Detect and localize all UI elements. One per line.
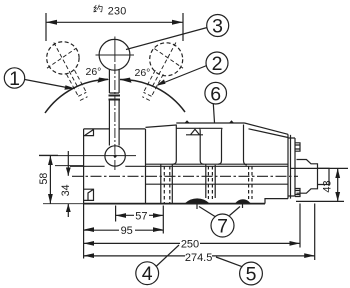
plunger cluster c dashed — [249, 166, 252, 199]
dashed ball left position — [47, 42, 79, 74]
cap lower line — [176, 127, 222, 129]
balloon 4 leader — [156, 245, 179, 267]
dimension 34 arrows — [66, 168, 71, 213]
dimension 250 arrows — [84, 241, 300, 246]
dimension 230 line — [46, 21, 183, 23]
balloon 5 leader — [216, 257, 243, 267]
balloon 7 leader right — [230, 207, 241, 216]
cone inner line — [249, 129, 289, 138]
svg-text:34: 34 — [60, 184, 72, 196]
body mid line — [146, 183, 289, 185]
dimension 95 line — [84, 229, 164, 231]
body bottom — [84, 203, 265, 205]
dimension 230 arrow right — [172, 20, 183, 25]
svg-text:2: 2 — [212, 53, 223, 75]
swing arc left — [45, 79, 108, 113]
balloon 1 leader — [25, 80, 72, 89]
dimension 43 line — [337, 168, 339, 201]
swing arc arrow right — [120, 78, 132, 83]
balloon 3 — [207, 15, 229, 37]
bottom-left clip detail — [84, 189, 94, 200]
svg-text:95: 95 — [121, 225, 133, 237]
right foot dome — [235, 199, 251, 203]
dimension 274.5 ext right — [314, 204, 316, 261]
body first tower outline — [84, 129, 146, 204]
filler plug symbol — [186, 129, 203, 135]
balloon 6 — [205, 82, 227, 104]
balloon 6 leader — [213, 104, 214, 123]
plunger cluster b — [206, 164, 215, 198]
pivot horizontal centerline — [39, 155, 136, 157]
dimension 43 ext top — [291, 167, 348, 169]
balloon 2 leader — [158, 66, 207, 86]
ball knob centerline horizontal — [96, 54, 135, 56]
svg-text:4: 4 — [142, 263, 153, 285]
dimension 43 ext bottom — [296, 200, 344, 202]
dashed lever stem left — [67, 70, 88, 100]
lever stem centerline — [114, 64, 116, 170]
tower A right side — [199, 128, 204, 164]
dimension 250 line — [84, 242, 300, 244]
main shaft centerline — [72, 175, 298, 177]
end plate — [288, 134, 295, 198]
dimension 34 ext left — [55, 165, 84, 167]
dashed lever stem right — [142, 70, 163, 100]
dimension 95 ext left — [83, 204, 85, 259]
output shaft tip — [318, 168, 330, 184]
tower A left side — [173, 125, 177, 165]
tower B left side — [218, 128, 223, 164]
right foot tick — [242, 204, 244, 208]
lever stem lower — [109, 100, 119, 146]
svg-text:5: 5 — [246, 264, 257, 286]
svg-text:3: 3 — [212, 16, 223, 38]
balloon 5 — [240, 262, 263, 285]
dimension 57 arrows — [116, 213, 164, 218]
balloon 2 — [206, 52, 228, 74]
dashed ball right cross perpendicular — [154, 49, 183, 69]
svg-text:274.5: 274.5 — [185, 252, 213, 264]
dimension 57 ext right — [162, 206, 164, 234]
cap top — [176, 122, 244, 124]
dimension 250 ext right — [299, 204, 301, 248]
ball knob — [99, 39, 130, 70]
left foot dome — [185, 198, 210, 203]
svg-text:230: 230 — [108, 5, 127, 17]
dimension 230 label — [93, 5, 102, 12]
dimension 230 arrow left — [46, 20, 57, 25]
cap diagonal right — [245, 123, 289, 134]
tower B right side — [244, 125, 248, 165]
output shaft collar — [297, 160, 318, 194]
dimension 57 ext left — [115, 206, 117, 222]
balloon 4 — [136, 262, 159, 285]
swing arc arrow left — [98, 78, 110, 83]
balloon 1 — [4, 68, 24, 88]
balloon 7 — [211, 214, 234, 237]
lever stem upper — [109, 70, 119, 94]
pivot circle — [105, 146, 125, 166]
end plate top bolt — [295, 143, 300, 151]
svg-text:1: 1 — [9, 68, 20, 90]
shoulder line second — [146, 163, 289, 165]
dashed ball left cross perpendicular — [47, 49, 76, 69]
dimension 230 extension line left — [45, 13, 47, 41]
ball knob centerline vertical — [114, 37, 116, 63]
balloon 7 leader left — [199, 207, 215, 217]
lever stem joint — [109, 96, 121, 100]
dashed ball right cross axis — [151, 43, 176, 89]
pivot center dot — [114, 155, 117, 158]
swing arc right — [120, 79, 185, 112]
dimension 57 line — [116, 214, 164, 216]
svg-text:26°: 26° — [86, 66, 102, 78]
svg-text:26°: 26° — [135, 67, 151, 79]
balloon 1 leader arrow — [64, 85, 75, 90]
balloon 3 leader — [126, 28, 207, 50]
dimension 230 extension line right — [182, 13, 184, 41]
svg-text:58: 58 — [38, 173, 50, 185]
dimension 43 arrows — [335, 168, 340, 201]
svg-text:250: 250 — [181, 238, 199, 250]
dimension 95 arrows — [84, 227, 164, 232]
left foot tick — [196, 204, 198, 209]
dashed ball left cross axis — [54, 43, 79, 89]
svg-text:43: 43 — [322, 180, 334, 192]
shoulder line upper — [70, 165, 288, 167]
dimension 274.5 line — [84, 255, 315, 257]
dimension 34 line — [67, 151, 69, 176]
end plate bottom bolt — [295, 189, 300, 197]
cap diagonal left — [146, 125, 177, 127]
body bottom extension left — [43, 203, 84, 205]
dashed ball right position — [150, 43, 183, 76]
plunger cluster a — [161, 164, 173, 203]
dimension 274.5 arrows — [84, 253, 315, 258]
svg-text:6: 6 — [210, 83, 221, 105]
top-left clip detail — [84, 129, 94, 136]
cap bolt tip right — [229, 120, 234, 123]
dimension 58 arrows — [48, 156, 53, 204]
balloon 2 leader arrow — [156, 79, 166, 85]
svg-text:57: 57 — [135, 210, 147, 222]
dimension 58 line — [49, 156, 51, 204]
dimension 58 ext top — [39, 154, 58, 156]
svg-text:7: 7 — [217, 216, 228, 238]
cap bolt tip left — [185, 120, 190, 123]
